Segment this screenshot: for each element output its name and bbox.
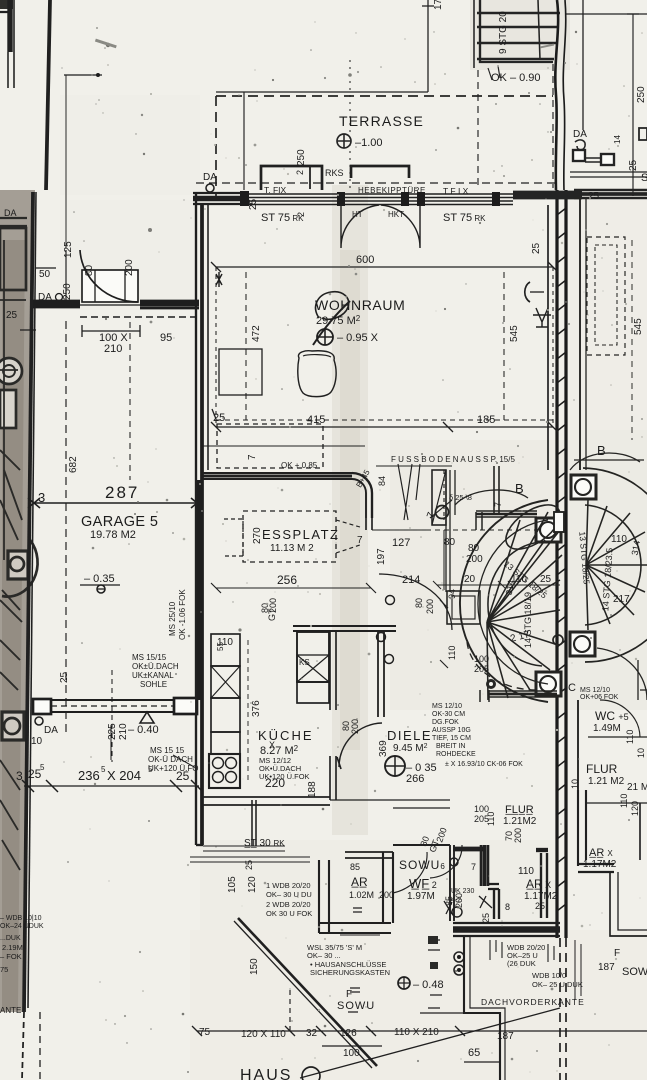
svg-text:AUSSP 10G: AUSSP 10G bbox=[432, 727, 471, 734]
svg-text:OK–24 ÜDUK: OK–24 ÜDUK bbox=[0, 922, 44, 930]
newel box bottom bbox=[536, 672, 561, 696]
svg-text:1.49M: 1.49M bbox=[593, 723, 621, 734]
neighbour left wall bbox=[574, 198, 580, 470]
wall stub left of stair bbox=[366, 518, 372, 530]
right wall symbols bbox=[525, 282, 530, 302]
svg-text:OK– 30 ...: OK– 30 ... bbox=[307, 951, 341, 960]
svg-text:25: 25 bbox=[6, 310, 18, 321]
newel box bottom neighbour bbox=[570, 632, 595, 656]
svg-text:200: 200 bbox=[379, 890, 394, 900]
radials neighbour bbox=[586, 500, 647, 630]
spiral outer arc bbox=[460, 500, 548, 702]
svg-text:F̲L̲U̲R̲: F̲L̲U̲R̲ bbox=[505, 804, 534, 816]
svg-text:545: 545 bbox=[633, 318, 644, 335]
level circle diele bbox=[385, 756, 405, 776]
main top window band bbox=[193, 166, 556, 287]
entry area right top bbox=[513, 0, 647, 202]
svg-text:ESSPLATZ: ESSPLATZ bbox=[262, 527, 340, 542]
garage right wall (unit left wall) bbox=[195, 194, 197, 845]
neighbour top wall bbox=[574, 190, 647, 198]
wall above stair bbox=[494, 466, 499, 513]
svg-text:25: 25 bbox=[540, 574, 552, 585]
terrasse bbox=[216, 0, 553, 198]
svg-text:– 0.35: – 0.35 bbox=[84, 573, 115, 585]
svg-text:25: 25 bbox=[628, 159, 639, 171]
svg-text:125: 125 bbox=[63, 241, 74, 258]
svg-text:C: C bbox=[568, 682, 576, 694]
wf top wall bbox=[393, 844, 450, 846]
svg-text:OK+06 FOK: OK+06 FOK bbox=[580, 694, 619, 701]
svg-text:–1.00: –1.00 bbox=[355, 137, 383, 149]
garage bbox=[6, 73, 203, 845]
island block bbox=[297, 632, 329, 682]
svg-text:127: 127 bbox=[392, 537, 410, 549]
svg-text:210: 210 bbox=[118, 723, 129, 740]
main spiral stair bbox=[372, 466, 568, 768]
svg-text:75: 75 bbox=[199, 1027, 211, 1038]
bottom-left window band ST30 bbox=[196, 844, 203, 846]
svg-text:DG.FOK: DG.FOK bbox=[432, 719, 459, 726]
svg-text:110: 110 bbox=[486, 812, 496, 826]
couch sketch bbox=[298, 351, 336, 397]
vertical dashed left bottom bbox=[39, 1012, 41, 1080]
stair newel box upper bbox=[8, 551, 28, 579]
roof overhang dashed line bbox=[196, 182, 556, 184]
svg-text:7: 7 bbox=[357, 535, 363, 546]
svg-text:UK±KANAL: UK±KANAL bbox=[132, 671, 174, 680]
svg-text:126: 126 bbox=[340, 1028, 357, 1039]
column circle bbox=[436, 506, 449, 519]
concentric circle symbols bbox=[454, 952, 464, 962]
thick wall block left of entry bbox=[513, 191, 582, 200]
svg-text:T. FIX: T. FIX bbox=[264, 185, 287, 195]
svg-text:2 WDB 20/20: 2 WDB 20/20 bbox=[266, 900, 311, 909]
svg-text:10: 10 bbox=[31, 736, 43, 747]
terrasse boundary dashed bbox=[216, 95, 553, 97]
svg-text:65: 65 bbox=[468, 1047, 480, 1059]
essplatz dashed rect bbox=[243, 511, 336, 562]
left neighbour grey strip bbox=[0, 190, 35, 1012]
svg-text:100: 100 bbox=[343, 1048, 360, 1059]
level circle bbox=[317, 329, 333, 345]
triangle mark bbox=[140, 712, 154, 723]
RKS box bbox=[261, 166, 322, 190]
svg-text:OK±Ü.DACH: OK±Ü.DACH bbox=[132, 662, 179, 671]
furniture square bbox=[219, 349, 262, 395]
porch step outline bbox=[289, 990, 291, 1031]
svg-text:200: 200 bbox=[513, 828, 523, 843]
svg-text:250: 250 bbox=[636, 86, 647, 103]
svg-text:270: 270 bbox=[252, 527, 263, 544]
squiggle bbox=[575, 140, 585, 150]
svg-text:110: 110 bbox=[611, 534, 627, 545]
mid tread arc bbox=[478, 520, 548, 684]
svg-text:WC +5: WC +5 bbox=[595, 709, 629, 723]
wall right of island bbox=[330, 631, 336, 710]
svg-text:75: 75 bbox=[0, 965, 8, 974]
svg-text:10: 10 bbox=[636, 748, 646, 758]
svg-text:2.19M: 2.19M bbox=[2, 943, 23, 952]
svg-text:DA: DA bbox=[573, 129, 587, 140]
party wall right of main unit bbox=[555, 0, 566, 1080]
dim line x444 bbox=[443, 530, 445, 590]
svg-text:105: 105 bbox=[227, 876, 238, 893]
neighbour window dashed band bbox=[587, 237, 625, 355]
porch outline steps bbox=[464, 936, 500, 1080]
svg-text:2: 2 bbox=[295, 170, 305, 175]
svg-text:250: 250 bbox=[62, 283, 73, 300]
svg-text:OK– 30 U DU: OK– 30 U DU bbox=[266, 890, 312, 899]
svg-text:217: 217 bbox=[613, 594, 630, 605]
sink unit bbox=[209, 754, 240, 788]
svg-text:110: 110 bbox=[619, 794, 629, 808]
svg-text:25: 25 bbox=[176, 769, 190, 783]
dim 287 line bbox=[33, 502, 197, 504]
entry walls right bbox=[450, 845, 454, 921]
DA circle bottom bbox=[35, 717, 43, 725]
kitchen counter rects bbox=[211, 634, 240, 666]
right margin dim line bbox=[565, 13, 647, 15]
svg-text:5: 5 bbox=[40, 763, 45, 772]
wall between kueche top and diele bbox=[378, 631, 384, 717]
door swing arc bbox=[80, 250, 138, 302]
garage centerline dashed bbox=[111, 670, 113, 762]
svg-text:185: 185 bbox=[477, 414, 495, 426]
svg-text:SOWU: SOWU bbox=[622, 966, 647, 978]
inner edge line of strip bbox=[28, 192, 36, 1008]
inner dashed rect bbox=[216, 267, 553, 427]
svg-text:21 M2: 21 M2 bbox=[627, 782, 647, 793]
balcony door swing arcs bbox=[341, 205, 379, 248]
leader ellipse B bbox=[455, 490, 528, 505]
newel box top neighbour bbox=[571, 475, 596, 499]
small marks bbox=[428, 940, 442, 1008]
svg-text:– WDB 10|10: – WDB 10|10 bbox=[0, 915, 42, 922]
svg-text:287: 287 bbox=[105, 483, 139, 502]
fragment box top bbox=[0, 228, 26, 290]
door kueche arc bbox=[339, 723, 382, 767]
svg-text:50: 50 bbox=[39, 269, 51, 280]
svg-text:± X 16.93/10 CK-06 FOK: ± X 16.93/10 CK-06 FOK bbox=[445, 761, 523, 768]
svg-text:25: 25 bbox=[588, 191, 600, 202]
stair arc upper bbox=[2, 540, 38, 597]
walls bbox=[578, 790, 586, 866]
svg-text:– FOK: – FOK bbox=[0, 952, 22, 961]
svg-text:120: 120 bbox=[630, 801, 640, 816]
svg-text:BREIT IN: BREIT IN bbox=[436, 743, 465, 750]
svg-text:110: 110 bbox=[625, 730, 635, 744]
svg-text:200: 200 bbox=[425, 599, 435, 614]
svg-text:4-2: 4-2 bbox=[451, 897, 461, 904]
vert line above entry bbox=[582, 0, 584, 130]
door arc into stair bbox=[467, 642, 537, 690]
svg-text:210: 210 bbox=[104, 343, 122, 355]
diele bbox=[260, 518, 452, 785]
fragment circle A bbox=[0, 358, 22, 384]
dim line bottom garage bbox=[24, 785, 199, 787]
svg-text:MS 25/10: MS 25/10 bbox=[168, 601, 177, 636]
top horizontal faint line bbox=[216, 91, 428, 93]
svg-text:MS 15/15: MS 15/15 bbox=[132, 653, 167, 662]
svg-text:80: 80 bbox=[468, 543, 480, 554]
right edge fragments bbox=[638, 660, 647, 737]
svg-text:ROHDECKE: ROHDECKE bbox=[436, 751, 476, 758]
top-left white area lines bbox=[0, 0, 50, 1080]
svg-text:1 WDB 20/20: 1 WDB 20/20 bbox=[266, 881, 311, 890]
bottom thick wall bbox=[453, 923, 560, 936]
neighbour walls mid bbox=[577, 700, 579, 790]
svg-text:120: 120 bbox=[247, 876, 258, 893]
svg-text:32: 32 bbox=[306, 1028, 318, 1039]
svg-text:MS 12/10: MS 12/10 bbox=[580, 687, 610, 694]
dashed line bottom left bbox=[22, 1012, 24, 1080]
vertical dim line 682 dashed bbox=[65, 321, 67, 737]
garage top wall left stub bbox=[33, 301, 80, 307]
svg-text:HAUS: HAUS bbox=[240, 1067, 292, 1080]
svg-text:B: B bbox=[597, 443, 606, 458]
svg-text:25: 25 bbox=[531, 242, 542, 254]
bottom rooms AR WF bbox=[190, 790, 560, 936]
svg-text:80: 80 bbox=[84, 264, 95, 276]
dashed leaders below stair bbox=[477, 70, 479, 188]
wall essplatz top bbox=[203, 473, 352, 479]
inner dashed bottom bbox=[216, 419, 553, 421]
svg-text:– 0.40: – 0.40 bbox=[128, 724, 159, 736]
kueche bbox=[196, 470, 396, 845]
balcony dashed rect above bbox=[217, 424, 323, 468]
roof diagonal double bbox=[238, 918, 377, 1066]
spiral inner arc bbox=[488, 542, 542, 666]
door arcs entry bbox=[430, 845, 462, 878]
corner mark bbox=[0, 6, 12, 12]
pen scribble bbox=[313, 301, 350, 345]
svg-text:– 0.95 X: – 0.95 X bbox=[337, 332, 379, 344]
svg-text:369: 369 bbox=[378, 740, 389, 757]
dashed projection lines mid bbox=[393, 800, 450, 808]
dashed mark right bbox=[336, 520, 360, 553]
svg-text:110 X 210: 110 X 210 bbox=[394, 1027, 439, 1038]
neighbour plan fragments in grey strip bbox=[0, 208, 38, 870]
door hinge circles entry bbox=[450, 858, 458, 866]
door lines bbox=[585, 158, 601, 162]
svg-text:1.97M: 1.97M bbox=[407, 891, 435, 902]
svg-text:175: 175 bbox=[433, 0, 444, 10]
level mark -0.48 bbox=[398, 977, 410, 989]
small dim ticks bbox=[20, 250, 66, 330]
svg-text:T F I X: T F I X bbox=[443, 186, 469, 196]
svg-text:29.75 M2: 29.75 M2 bbox=[316, 314, 361, 327]
svg-text:– 0.48: – 0.48 bbox=[413, 979, 444, 991]
kitchen-diele wall lower bbox=[330, 756, 336, 800]
svg-text:188: 188 bbox=[307, 781, 318, 798]
svg-text:266: 266 bbox=[406, 773, 424, 785]
svg-text:472: 472 bbox=[251, 325, 262, 342]
inner dashed bbox=[595, 245, 617, 345]
bottom wall of stair bbox=[489, 691, 557, 697]
svg-text:20: 20 bbox=[464, 574, 476, 585]
svg-text:682: 682 bbox=[68, 456, 79, 473]
floor line above stair B bbox=[574, 459, 644, 461]
tick marks stair bbox=[440, 600, 448, 668]
svg-text:25: 25 bbox=[244, 860, 254, 870]
svg-text:236: 236 bbox=[78, 768, 100, 783]
leader lines fussboden bbox=[398, 464, 420, 520]
fragment lines top bbox=[0, 240, 26, 870]
window band lines bbox=[242, 194, 513, 205]
bottom outside area bbox=[0, 908, 647, 1080]
svg-text:...DUK: ...DUK bbox=[0, 935, 21, 942]
svg-text:2: 2 bbox=[296, 212, 306, 217]
boundary line above stair bbox=[376, 465, 452, 467]
small shaft box bbox=[447, 591, 480, 624]
svg-text:ANTE: ANTE bbox=[0, 1006, 21, 1015]
svg-text:85: 85 bbox=[350, 862, 360, 872]
stair radials lower bbox=[487, 610, 560, 700]
svg-text:256: 256 bbox=[277, 573, 297, 587]
door swing marks bbox=[444, 896, 492, 914]
svg-text:δ 25 \8: δ 25 \8 bbox=[449, 493, 472, 502]
fragment box A bbox=[0, 390, 16, 428]
svg-text:WOHNRAUM: WOHNRAUM bbox=[315, 297, 405, 313]
essplatz area bbox=[203, 424, 515, 593]
dim line under 100X bbox=[82, 330, 140, 332]
wohnraum bbox=[208, 204, 558, 470]
svg-text:187: 187 bbox=[497, 1031, 514, 1042]
garage bottom wall w/ chimney bbox=[33, 699, 51, 714]
stair outline bbox=[480, 0, 553, 62]
svg-text:OK + 0.85: OK + 0.85 bbox=[281, 461, 318, 470]
svg-text:7: 7 bbox=[247, 454, 258, 460]
svg-text:FLUR: FLUR bbox=[586, 762, 618, 776]
svg-text:55: 55 bbox=[216, 642, 225, 651]
svg-text:TERRASSE: TERRASSE bbox=[339, 113, 424, 129]
wall above stair bbox=[443, 470, 445, 520]
level mark -1.00 bbox=[337, 134, 351, 148]
stair radials upper bbox=[487, 512, 562, 622]
svg-text:OK – 0.90: OK – 0.90 bbox=[491, 72, 541, 84]
svg-text:80: 80 bbox=[414, 598, 424, 608]
DA stub in strip bbox=[0, 218, 27, 226]
svg-text:220: 220 bbox=[265, 776, 285, 790]
upper landing lines bbox=[454, 470, 456, 515]
essplatz-diele dim 80/200 door arc bbox=[379, 574, 452, 630]
exterior staircase top right bbox=[474, 0, 647, 196]
tick line upper bbox=[64, 74, 102, 76]
svg-text:5: 5 bbox=[101, 765, 106, 774]
svg-text:100: 100 bbox=[474, 654, 489, 664]
svg-text:187: 187 bbox=[598, 962, 615, 973]
svg-text:SOWU6: SOWU6 bbox=[399, 858, 446, 872]
svg-text:197: 197 bbox=[376, 548, 387, 565]
svg-text:95: 95 bbox=[160, 332, 172, 344]
garage top wall right piece bbox=[140, 301, 199, 308]
spiral arcs neighbour bbox=[583, 468, 647, 662]
left wall lower bbox=[195, 470, 197, 845]
leader ellipse bbox=[570, 453, 640, 470]
svg-text:25: 25 bbox=[481, 913, 491, 923]
dashed rect left small bbox=[224, 519, 243, 556]
svg-text:120 X 110: 120 X 110 bbox=[241, 1029, 286, 1040]
svg-text:(26 DUK: (26 DUK bbox=[507, 959, 536, 968]
wf door arc bbox=[393, 852, 427, 893]
top dim line 175 bbox=[427, 0, 429, 92]
svg-text:OK-30 CM: OK-30 CM bbox=[432, 711, 465, 718]
stair shaft wall bbox=[446, 470, 450, 592]
neighbour bottom bbox=[570, 779, 647, 936]
stair radial lines bbox=[0, 450, 22, 690]
party wall main double bbox=[555, 190, 558, 938]
small R box top right bbox=[639, 128, 647, 140]
svg-text:WDB 10/0: WDB 10/0 bbox=[532, 971, 566, 980]
svg-text:1.21M2: 1.21M2 bbox=[503, 816, 537, 827]
svg-text:S: S bbox=[641, 172, 647, 184]
svg-text:SOWU: SOWU bbox=[337, 1000, 375, 1012]
party wall dashed bottom bbox=[560, 938, 566, 1080]
left wall mark K bbox=[216, 272, 222, 287]
svg-text:84: 84 bbox=[377, 476, 387, 486]
svg-text:600: 600 bbox=[356, 254, 374, 266]
stair treads bbox=[477, 13, 560, 59]
svg-text:F: F bbox=[614, 948, 620, 959]
top wall of kitchen bbox=[293, 626, 396, 631]
svg-text:19.78 M2: 19.78 M2 bbox=[90, 529, 136, 541]
svg-text:TIEF, 15 CM: TIEF, 15 CM bbox=[432, 735, 471, 742]
svg-text:OK -1.06 FOK: OK -1.06 FOK bbox=[178, 589, 187, 640]
svg-text:200: 200 bbox=[268, 598, 278, 613]
bracket over HEBEKIPP door bbox=[351, 166, 409, 178]
wc door arc bbox=[600, 700, 640, 737]
upper flight ellipse bbox=[498, 496, 567, 558]
svg-text:14: 14 bbox=[613, 135, 622, 144]
svg-text:1.21 M2: 1.21 M2 bbox=[588, 776, 625, 787]
svg-text:RKS: RKS bbox=[325, 168, 344, 178]
dashed line under top wall bbox=[80, 316, 196, 318]
neighbour unit right bbox=[553, 198, 647, 790]
corner radius wall bbox=[352, 473, 372, 518]
svg-text:7: 7 bbox=[493, 502, 503, 507]
leader line bbox=[173, 755, 196, 768]
garage door opening sill bbox=[80, 304, 140, 306]
bottom center ring bbox=[486, 679, 496, 689]
svg-text:KÜCHE: KÜCHE bbox=[258, 728, 314, 743]
svg-text:SOHLE: SOHLE bbox=[140, 680, 167, 689]
AR room walls bbox=[319, 860, 329, 933]
dim line 256 bbox=[216, 587, 371, 589]
svg-text:1.02M: 1.02M bbox=[349, 890, 374, 900]
mullion blocks bbox=[240, 191, 249, 206]
svg-text:A̲R̲ X: A̲R̲ X bbox=[526, 877, 551, 891]
svg-text:MS 15 15: MS 15 15 bbox=[150, 746, 185, 755]
svg-text:KS: KS bbox=[299, 658, 310, 667]
door leaf 80/200 bbox=[82, 270, 138, 302]
dim row bottom bbox=[197, 1030, 647, 1032]
svg-text:OK 30 U FOK: OK 30 U FOK bbox=[266, 909, 312, 918]
right wall inner line bbox=[547, 205, 549, 470]
thick short line top-left bbox=[7, 0, 12, 52]
svg-text:25: 25 bbox=[59, 671, 70, 683]
dim line 20-110-25 bbox=[437, 584, 560, 586]
door jamb rects bbox=[573, 150, 585, 161]
svg-text:DA: DA bbox=[44, 725, 58, 736]
dim line y446 bbox=[203, 445, 365, 447]
newel circle lower bbox=[4, 718, 20, 734]
svg-text:DA: DA bbox=[4, 208, 17, 218]
svg-text:110: 110 bbox=[518, 866, 534, 877]
newel box top bbox=[536, 518, 561, 542]
svg-text:SICHERUNGSKASTEN: SICHERUNGSKASTEN bbox=[310, 968, 390, 977]
boundary line lower continuation bbox=[24, 192, 33, 1012]
svg-text:9 STG 20: 9 STG 20 bbox=[498, 11, 509, 54]
